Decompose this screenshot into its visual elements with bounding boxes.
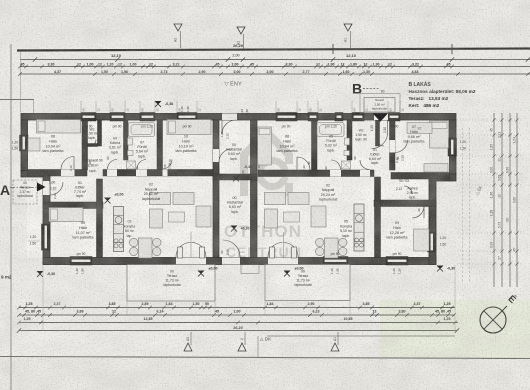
watermark house logo (244, 132, 289, 196)
window top vent B (335, 113, 343, 122)
sofa set A (150, 193, 171, 205)
wall furdo-halo10 (157, 120, 163, 170)
window left halo09 (42, 224, 51, 250)
bathtub B (317, 123, 344, 137)
door arc halo06 (61, 157, 74, 170)
window top wcB (352, 113, 364, 122)
wc furdo B (344, 151, 350, 156)
window top halo08 (276, 113, 297, 122)
window top kamra A (110, 113, 125, 122)
wall haztartasi divider (213, 174, 257, 180)
wall wc bottom (88, 144, 98, 147)
window bottom halo09B (386, 257, 408, 266)
wall kamra-furdo (124, 120, 129, 160)
bottom marker A1 (331, 343, 339, 351)
ext line x350 (349, 300, 351, 316)
level -0,30 left (37, 271, 43, 277)
window right halo07 (448, 138, 457, 156)
sink furdo A (128, 138, 133, 145)
wall below halo07 (391, 173, 450, 180)
door arc halo07 (395, 140, 408, 153)
exterior wall left lower (43, 171, 50, 265)
window top small B1 (308, 113, 318, 122)
paper tint bottom right (380, 300, 530, 390)
neighbor line top left (0, 99, 34, 101)
ext line x455 (454, 265, 456, 331)
small desk halo06 (28, 138, 40, 151)
bed halo09A (49, 208, 83, 222)
wall below halo08 (258, 170, 374, 177)
door gap halo07 (390, 140, 396, 153)
window top wc A (81, 113, 96, 122)
left frame line (10, 44, 12, 390)
window left halo06 (20, 135, 29, 151)
shower furdo A (127, 161, 136, 169)
door gap furdo05 (330, 170, 341, 177)
bottom frame line (0, 357, 530, 359)
desk halo09B (414, 229, 430, 251)
kitchen counter B (354, 204, 364, 251)
closet halo07 (407, 123, 432, 134)
paper tint top (0, 0, 530, 48)
level +0,00 konyhaA (105, 198, 111, 204)
exterior wall top (21, 114, 456, 121)
wall halo08-furdo05 (312, 120, 318, 170)
wall furdo05-wcB (347, 120, 352, 160)
door gap halo06 (61, 170, 75, 177)
bed halo07 (430, 121, 449, 148)
door gap kamraA (107, 170, 117, 177)
door axis line B (283, 232, 285, 258)
paper tint bottom band (0, 358, 530, 390)
right dimension lines (493, 113, 495, 287)
kitchen counter A (114, 207, 124, 252)
window top halo07 (388, 113, 400, 122)
door arc halo10 (163, 160, 173, 170)
bottom marker A3 (184, 343, 192, 351)
wc furdo A (128, 151, 134, 156)
bottom marker 2 (238, 343, 246, 351)
level -0,30 right (437, 266, 443, 272)
compass symbol (480, 307, 506, 333)
door arc kamraB (404, 186, 412, 194)
sofa set B (265, 193, 286, 205)
terasz B box (265, 265, 350, 301)
door gap terasz B (268, 258, 298, 265)
level -0,38 top (155, 101, 161, 107)
bottom extra line right (267, 335, 455, 337)
entrance arrow A (37, 183, 46, 192)
window bottom nappaliB (323, 257, 348, 266)
terasz B entry box (360, 94, 400, 114)
neighbor line stub (33, 100, 35, 114)
dining table A (139, 238, 153, 258)
door gap entrance A (43, 181, 50, 195)
door gap haztartasi top (222, 114, 237, 121)
terasz A box (127, 265, 215, 302)
dining table B (325, 238, 339, 258)
door arc halo08 (297, 157, 310, 170)
exterior wall step B (429, 174, 456, 181)
door gap halo10 (163, 170, 168, 177)
site boundary line top (17, 49, 530, 51)
door gap wcB corridor (360, 170, 370, 177)
exterior wall right lower (429, 174, 436, 265)
bottom dim row2 (19, 314, 455, 316)
wall below kamraB (374, 200, 436, 207)
door gap furdoA (136, 170, 147, 177)
wall halo06-wc (82, 120, 88, 170)
exterior wall right upper (450, 120, 457, 174)
wall top of halo09 (43, 202, 103, 209)
exterior wall step A (21, 171, 50, 178)
wall wc-kamra (98, 120, 102, 146)
door arc halo09 (55, 208, 67, 220)
dimension line row3 (20, 73, 530, 75)
bathtub A (129, 123, 155, 137)
door arcs terasz B (268, 243, 283, 258)
party wall left (213, 120, 219, 258)
door arcs terasz A (176, 243, 191, 258)
door arc wcB (377, 139, 384, 146)
door arc wc A (89, 140, 96, 147)
door arc haztartasi top (222, 120, 236, 134)
party wall right (251, 120, 258, 258)
wall konyhaB-halo09B (375, 177, 381, 258)
exterior wall bottom (43, 258, 436, 265)
plan interior white lower (50, 172, 430, 258)
door gap party1 (213, 149, 219, 162)
section line A (10, 187, 45, 189)
bed halo10 (167, 120, 211, 135)
window right halo09B (428, 232, 437, 252)
level pm0 terasz A (198, 271, 204, 277)
wall eloterB-halo07 (390, 120, 396, 170)
ext line x127 (126, 301, 128, 316)
top wall window ticks (80, 101, 82, 113)
right extension dotted lines (457, 119, 521, 121)
level +0,20 center (231, 226, 237, 232)
door arc furdo A (137, 160, 146, 170)
door arc haztartasi bottom (223, 240, 240, 257)
door arc kamra A (108, 160, 118, 170)
bottom dim row3 (19, 322, 458, 324)
door arc entrance A (50, 182, 63, 195)
ext line x265 (264, 300, 266, 316)
door axis line A (190, 232, 192, 258)
dimension line row1 (20, 59, 530, 61)
shower furdo B (342, 161, 351, 169)
door arc halo09B (412, 206, 424, 218)
bed halo06 (37, 120, 81, 134)
wall corridor A bottom (103, 170, 219, 177)
door arc entrance B (372, 135, 388, 149)
window top halo10 (177, 113, 197, 122)
bottom dim row4 2620 (19, 330, 457, 332)
door gap terasz A (176, 258, 206, 265)
survey marker A2 left (174, 24, 182, 31)
bottom vert connector (257, 336, 259, 357)
wall below halo06 (28, 170, 88, 177)
window top furdo A (140, 113, 155, 122)
level X mid column (233, 176, 239, 182)
wall halo09-konyha (97, 179, 103, 258)
boundary tick 333 (332, 44, 334, 54)
door arc party1 (219, 149, 232, 162)
window bottom halo09A (70, 257, 92, 266)
level pm0 terasz B (284, 271, 290, 277)
ext line x43 (42, 265, 44, 331)
dimension line row2 (20, 66, 530, 68)
step center bottom (241, 265, 259, 274)
ext line x215 (214, 301, 216, 316)
door gap haztartasi bottom (222, 258, 240, 265)
door gap entrance B (374, 114, 388, 121)
survey marker A2 mid (237, 27, 245, 34)
wall wcB-eloterB (376, 120, 380, 146)
exterior wall left upper (21, 120, 28, 172)
bed halo08 (258, 127, 272, 165)
bottom dim row1 (19, 307, 455, 309)
plan interior white A (27, 120, 432, 258)
sink furdo B (345, 138, 350, 145)
survey marker A1 right (344, 24, 352, 31)
entrance arrow B (373, 113, 388, 122)
door arc furdo05 (331, 160, 341, 170)
dresser halo07 (424, 164, 448, 173)
terasz A entry dashed box (13, 180, 37, 204)
boundary tick 452 (451, 44, 453, 54)
section line B dash (363, 88, 380, 90)
